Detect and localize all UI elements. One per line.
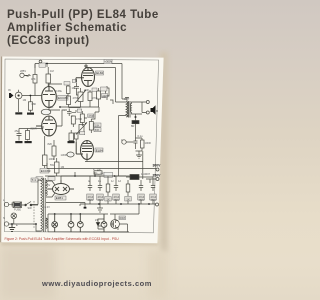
wire bottom bus amp [45, 172, 130, 176]
svg-text:1K: 1K [107, 198, 110, 202]
potentiometer VR2 [75, 88, 86, 107]
wire B+ rail top [35, 64, 122, 69]
resistor R2 [33, 64, 37, 96]
border frame [4, 59, 158, 233]
wire psu bus [86, 176, 153, 183]
capacitor C5 [134, 138, 138, 149]
ground [25, 141, 32, 143]
svg-text:450V: 450V [139, 198, 145, 202]
svg-text:5V: 5V [47, 183, 50, 187]
svg-text:IRF8: IRF8 [119, 216, 125, 220]
svg-text:450V: 450V [98, 198, 104, 202]
node junctions gnd bus [98, 203, 150, 205]
svg-text:5 , 100: 5 , 100 [96, 172, 104, 176]
svg-text:47K: 47K [31, 77, 36, 81]
wire secondary stubs [142, 102, 147, 113]
power transformer T1 [41, 178, 47, 232]
node label box [39, 63, 46, 67]
svg-text:1M: 1M [23, 98, 27, 102]
svg-text:IN: IN [8, 88, 11, 92]
capacitor C11 filter [97, 183, 104, 200]
tube V3 EL84 [76, 140, 93, 160]
resistor R7 [55, 158, 60, 176]
tube V1a ECC83 [42, 87, 57, 108]
resistor R17 [80, 111, 84, 126]
node heater junction [54, 207, 87, 215]
node label box bus [48, 177, 55, 180]
zener Z1 [96, 223, 104, 230]
ground [15, 141, 22, 143]
resistor R5 [43, 136, 48, 168]
node label box [94, 123, 101, 127]
mosfet Q1 [111, 220, 120, 230]
potentiometer VR1 [20, 73, 30, 77]
node label box bus [36, 177, 43, 180]
resistor R27 [69, 130, 74, 141]
wire primary leads [32, 180, 41, 231]
resistor R15 NFB [94, 171, 102, 174]
svg-text:470K: 470K [73, 96, 79, 100]
AC plug terminal L [4, 202, 13, 206]
resistor R14 [141, 138, 145, 151]
ground [136, 155, 142, 158]
svg-text:450V: 450V [88, 198, 94, 202]
node junction [135, 116, 137, 118]
node label box [92, 88, 97, 91]
resistor R13 feedback [132, 114, 139, 130]
node junctions [46, 63, 137, 177]
tube V2 EL84 [76, 68, 95, 87]
node oval label [67, 152, 74, 157]
svg-text:1M: 1M [72, 86, 76, 90]
node junction [11, 223, 37, 225]
svg-text:FUSE: FUSE [14, 208, 21, 212]
node label box [104, 172, 113, 177]
svg-text:285V: 285V [20, 69, 26, 73]
capacitor C13 filter [138, 183, 145, 200]
node output terminals [146, 101, 149, 115]
svg-text:EZ81: EZ81 [56, 196, 64, 200]
svg-text:820R: 820R [31, 127, 37, 131]
wire shield dashed [33, 201, 35, 228]
resistor R12 [106, 86, 110, 100]
node label [122, 140, 126, 144]
svg-text:50K: 50K [85, 88, 90, 92]
node EZ81 label [55, 196, 66, 200]
capacitor C10 filter [87, 183, 94, 200]
resistor R9 [67, 96, 71, 107]
svg-text:E: E [16, 223, 18, 227]
svg-text:25u: 25u [15, 129, 20, 133]
wire cathode [19, 126, 43, 129]
svg-text:N: N [3, 216, 5, 220]
tube heater H3 [77, 214, 83, 232]
capacitor C4 [67, 109, 72, 117]
node label box [94, 128, 101, 132]
node 300V terminal [156, 168, 159, 181]
rectifier V4 EZ81 [48, 180, 74, 195]
svg-text:10K: 10K [95, 123, 100, 127]
svg-text:ECC83: ECC83 [58, 96, 68, 100]
wire plate to OPT [85, 64, 143, 177]
svg-text:68K: 68K [32, 102, 37, 106]
input jack J1 [15, 90, 41, 112]
svg-text:OPT: OPT [124, 97, 130, 101]
svg-text:8R: 8R [131, 124, 134, 128]
resistor R18 [89, 119, 93, 133]
svg-text:1.5K: 1.5K [48, 105, 54, 109]
node ECC83 label [58, 96, 69, 101]
switch S1 [25, 202, 38, 206]
schematic paper [1, 57, 163, 244]
node label V1 [40, 169, 49, 174]
transformer T2 OPT primary [125, 98, 130, 118]
wire 300V B+ line [47, 151, 156, 183]
node +300V label [104, 60, 112, 64]
svg-text:0.1u: 0.1u [138, 134, 144, 138]
tube heater H2 [68, 214, 74, 232]
node junction [39, 60, 42, 63]
svg-text:0.68u: 0.68u [56, 89, 63, 93]
svg-text:470K: 470K [88, 114, 94, 118]
wire interstage [49, 84, 62, 110]
svg-text:Figure 2: Push-Pull EL84 Tube: Figure 2: Push-Pull EL84 Tube Amplifier … [5, 237, 120, 241]
wire ground bus psu [80, 200, 156, 206]
resistor R4 cathode [26, 129, 30, 141]
node label box [80, 132, 85, 135]
node junction [30, 95, 32, 97]
svg-text:100K: 100K [49, 157, 55, 161]
wire zobel [126, 130, 142, 155]
node EL84 label [96, 71, 104, 75]
node oval label [41, 109, 51, 115]
svg-text:10K: 10K [102, 95, 107, 99]
resistor R11 [97, 88, 101, 107]
ground psu [97, 204, 103, 212]
ground mains [9, 224, 15, 232]
svg-text:SW: SW [28, 206, 33, 210]
svg-text:T-1: T-1 [32, 178, 37, 182]
svg-text:130R: 130R [61, 153, 67, 157]
svg-text:100R: 100R [145, 141, 151, 145]
node label box [101, 87, 108, 91]
capacitor C3 [74, 83, 79, 92]
resistor R21 [125, 183, 132, 201]
ground [27, 113, 34, 115]
ground [68, 141, 75, 143]
svg-text:470K: 470K [92, 96, 98, 100]
svg-text:470K: 470K [76, 117, 82, 121]
capacitor C2 cathode [17, 129, 22, 141]
tube V1b ECC83 [36, 116, 56, 136]
label texts [3, 60, 161, 228]
svg-text:G: G [104, 224, 106, 228]
svg-text:6.3V: 6.3V [45, 205, 51, 209]
svg-text:1K: 1K [127, 198, 130, 202]
resistor R20 [105, 183, 112, 201]
svg-text:450V: 450V [151, 198, 157, 202]
lamp PL1 [52, 214, 58, 232]
svg-text:300V: 300V [153, 164, 162, 168]
svg-text:EL84: EL84 [96, 71, 103, 75]
node pin circle [85, 65, 87, 67]
node ground terminal [156, 203, 159, 206]
svg-text:1M: 1M [61, 165, 65, 169]
resistor R3 [46, 67, 51, 87]
wire lower splitter [56, 107, 99, 126]
node EL84 label [95, 148, 103, 152]
svg-text:ECC83: ECC83 [41, 169, 51, 173]
svg-text:1N4007: 1N4007 [141, 172, 151, 176]
tube heater H4 [101, 214, 107, 232]
node T-1 label [31, 178, 38, 182]
speaker SPK [151, 105, 158, 115]
wire heater [46, 181, 129, 232]
node label [72, 80, 77, 83]
svg-text:EL84: EL84 [96, 148, 103, 152]
svg-text:4 , 100: 4 , 100 [93, 167, 101, 171]
wire B+ out [61, 176, 86, 180]
AC plug terminal N [4, 222, 36, 226]
resistor R16 [71, 116, 75, 127]
svg-text:+300V: +300V [104, 60, 112, 64]
resistor R1 [28, 96, 32, 113]
svg-text:5W: 5W [50, 163, 54, 167]
diode D1 [126, 175, 146, 180]
wire regulator [98, 204, 139, 232]
node D arrow [9, 93, 14, 98]
svg-text:1M: 1M [50, 69, 54, 73]
capacitor C14 filter [150, 183, 157, 200]
capacitor C12 filter [113, 183, 120, 200]
lamp NE1 [11, 213, 17, 224]
node label [64, 82, 70, 86]
svg-text:450V: 450V [114, 198, 120, 202]
resistor R28 [75, 133, 79, 142]
potentiometer VR3 [76, 123, 87, 135]
node label box [88, 114, 94, 118]
resistor R10 [88, 90, 92, 107]
svg-text:350V: 350V [153, 174, 162, 178]
node label box [77, 109, 82, 112]
resistor R8 [67, 85, 71, 96]
svg-text:50K: 50K [95, 128, 100, 132]
ground [15, 112, 22, 114]
resistor R6 [52, 140, 56, 160]
svg-text:82K: 82K [48, 142, 53, 146]
wire splitter bus [60, 92, 99, 108]
fuse F1 [13, 202, 24, 208]
node label [102, 94, 108, 98]
node label box Q1 [119, 216, 126, 220]
transformer T2 secondary [130, 102, 142, 114]
